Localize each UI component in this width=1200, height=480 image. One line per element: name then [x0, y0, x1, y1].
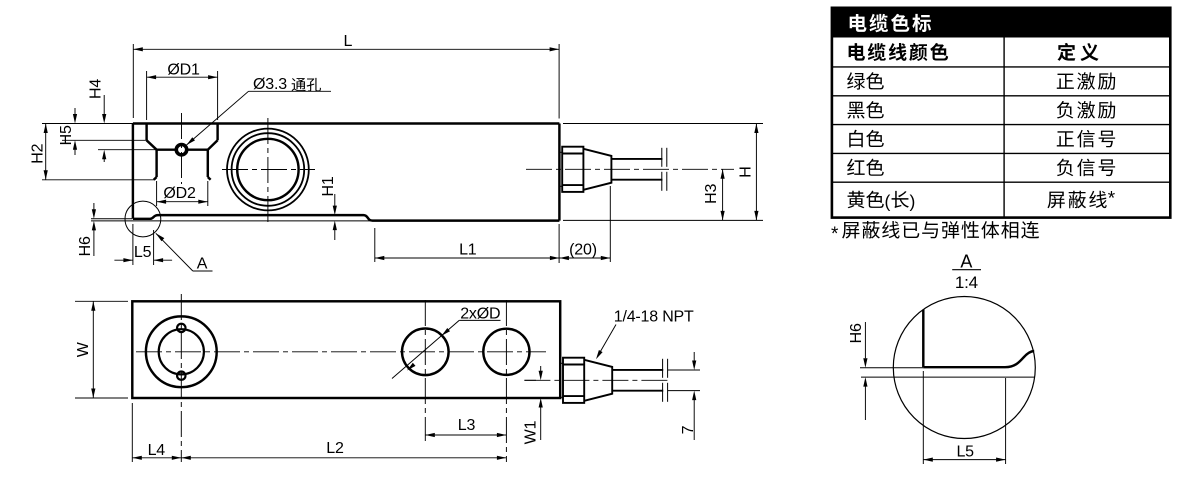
side view: datum line under body (mounting plane) — [91, 219, 372, 221]
plan view: left circle vertical centerline — [180, 294, 182, 462]
dimension L3 — [425, 417, 506, 437]
side view: cable gland connector and cable — [559, 147, 666, 192]
label 1/4-18 NPT with leader — [596, 308, 694, 359]
svg-text:L5: L5 — [134, 244, 152, 261]
plan view: body outline rectangle — [132, 301, 560, 398]
svg-text:L4: L4 — [148, 442, 166, 459]
svg-text:2xØD: 2xØD — [460, 306, 500, 323]
svg-text:*: * — [1108, 189, 1116, 210]
svg-text:W: W — [75, 341, 92, 357]
svg-text:H5: H5 — [58, 125, 75, 145]
dimension L5 (side view) — [114, 224, 172, 265]
dimension H1 — [320, 176, 337, 240]
table: outer border — [832, 8, 1170, 218]
table row: white / +signal — [849, 130, 1115, 148]
detail A: boundary circle — [893, 297, 1035, 439]
leader and label A (detail callout) — [156, 233, 213, 272]
svg-text:(: ( — [885, 192, 891, 212]
dimension W — [75, 301, 128, 398]
svg-text:L2: L2 — [326, 440, 344, 457]
detail A: mounting plane line — [861, 376, 1035, 378]
svg-text:L3: L3 — [458, 417, 476, 434]
svg-text:W1: W1 — [523, 420, 540, 444]
svg-text:A: A — [960, 252, 972, 272]
svg-text:7: 7 — [680, 425, 697, 434]
table: column divider — [1003, 38, 1005, 218]
side view: detail-A indicator circle — [125, 201, 161, 237]
table row: red / -signal — [847, 159, 1115, 177]
table row: yellow(long) / shield — [848, 189, 1116, 212]
dimension H4 — [88, 79, 158, 162]
dimension OD1 — [147, 61, 218, 120]
label 2xOD with leader through hole 1 — [392, 306, 501, 379]
dimension H2 — [30, 124, 155, 180]
dimension H5 — [58, 108, 147, 155]
dimension H6 (detail A) — [848, 322, 868, 420]
svg-text:H3: H3 — [703, 183, 720, 203]
plan view: small arc circles on bore — [177, 324, 185, 380]
svg-text:H6: H6 — [77, 236, 94, 256]
dimension (20) — [559, 186, 610, 263]
svg-text:H1: H1 — [320, 176, 337, 196]
dimension W1 — [523, 366, 543, 444]
detail A: title A over 1:4 — [952, 252, 981, 293]
plan view: counterbore circles (left) — [146, 316, 217, 387]
svg-text:L5: L5 — [956, 443, 974, 460]
svg-text:(20): (20) — [569, 241, 597, 258]
side view: connector centerline — [526, 168, 734, 170]
dimension OD2 — [157, 181, 208, 206]
table: column headers — [849, 43, 1099, 61]
dimension L2 — [181, 440, 506, 460]
svg-text:Ø3.3: Ø3.3 — [253, 76, 287, 93]
svg-text:H6: H6 — [848, 323, 865, 343]
plan view: hole 1 centerline — [424, 300, 426, 441]
dimension H3 — [703, 169, 725, 220]
table row: green / +excitation — [847, 72, 1115, 90]
dimension H6 (side view) — [77, 203, 96, 256]
table row: black / -excitation — [848, 101, 1116, 119]
dimension L4 — [132, 403, 181, 462]
dimension H (overall height) — [563, 124, 763, 221]
plan view: cable gland connector and cable — [560, 358, 667, 403]
table: cable color code header bar — [832, 8, 1170, 38]
svg-text:L1: L1 — [459, 241, 477, 258]
side view: large hole centerlines — [222, 118, 315, 222]
svg-text:A: A — [197, 256, 208, 273]
svg-text:H2: H2 — [30, 143, 47, 163]
side view: recess vertical centerline — [181, 113, 183, 184]
svg-text:H: H — [738, 166, 755, 177]
svg-text:): ) — [910, 192, 916, 212]
svg-text:ØD1: ØD1 — [167, 61, 200, 78]
svg-text:L: L — [344, 33, 353, 50]
table: row separator lines — [832, 67, 1170, 182]
plan view: hole 2 centerline — [505, 300, 507, 462]
dimension L1 — [375, 228, 560, 262]
dimension 7 (cable diameter) — [668, 352, 700, 440]
plan view: hole 2 (2xOD) — [483, 329, 529, 375]
side view: load cell body outline — [133, 124, 560, 221]
dimension L5 (detail A) — [923, 371, 1005, 464]
plan view: hole 1 (2xOD) — [402, 329, 449, 376]
svg-text:ØD2: ØD2 — [163, 185, 196, 202]
plan view: main horizontal centerline — [136, 351, 546, 353]
detail A: foot-level extension line — [860, 367, 923, 369]
svg-text:1:4: 1:4 — [955, 273, 978, 292]
table footnote: shield wire connected to element — [831, 221, 1039, 245]
side view: 3.3mm through hole (bold ring) — [176, 145, 186, 155]
svg-text:H4: H4 — [88, 79, 105, 99]
svg-text:1/4-18 NPT: 1/4-18 NPT — [614, 308, 694, 325]
label O3.3 through hole with leader — [187, 76, 332, 145]
detail A: corner profile (magnified) — [923, 310, 1034, 368]
side view: large through-hole circles — [227, 129, 309, 211]
side view: counterbore recess profile (D1/D2) — [147, 124, 218, 180]
dimension L (overall length) — [133, 33, 559, 118]
svg-text:*: * — [831, 224, 839, 245]
plan view: connector centerline — [524, 379, 668, 381]
